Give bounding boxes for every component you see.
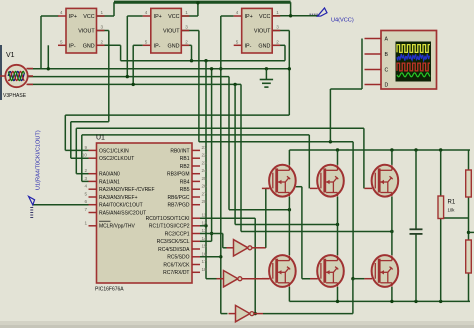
svg-text:VIOUT: VIOUT xyxy=(163,29,180,35)
svg-text:1: 1 xyxy=(84,220,87,225)
svg-text:25: 25 xyxy=(202,176,208,181)
svg-text:IP+: IP+ xyxy=(69,14,77,20)
svg-text:2: 2 xyxy=(101,39,104,44)
svg-text:11: 11 xyxy=(202,213,207,218)
svg-text:OSC1/CLKIN: OSC1/CLKIN xyxy=(99,148,129,154)
svg-text:RB2: RB2 xyxy=(180,164,190,170)
svg-text:U4(VCC): U4(VCC) xyxy=(331,18,354,24)
svg-text:10k: 10k xyxy=(448,208,456,213)
svg-text:RA3/AN3/VREF+: RA3/AN3/VREF+ xyxy=(99,195,138,201)
svg-text:RC5/SDO: RC5/SDO xyxy=(167,255,189,261)
svg-text:4: 4 xyxy=(145,10,148,15)
svg-text:3: 3 xyxy=(185,25,188,30)
svg-text:24: 24 xyxy=(202,168,208,173)
svg-text:1: 1 xyxy=(185,10,188,15)
svg-text:10: 10 xyxy=(82,153,88,158)
svg-text:RC6/TX/CK: RC6/TX/CK xyxy=(163,262,190,268)
svg-text:RA4/T0CKI/C1OUT: RA4/T0CKI/C1OUT xyxy=(99,203,143,209)
svg-text:5: 5 xyxy=(236,39,239,44)
svg-text:IP+: IP+ xyxy=(245,14,253,20)
svg-text:13: 13 xyxy=(202,228,208,233)
svg-text:14: 14 xyxy=(202,236,208,241)
svg-text:RC7/RX/DT: RC7/RX/DT xyxy=(163,270,189,276)
svg-text:VCC: VCC xyxy=(259,14,270,20)
svg-text:RB6/PGC: RB6/PGC xyxy=(168,195,190,201)
svg-text:R1: R1 xyxy=(448,200,456,206)
svg-text:RC3/SCK/SCL: RC3/SCK/SCL xyxy=(157,239,190,245)
svg-text:9: 9 xyxy=(84,145,87,150)
svg-text:3: 3 xyxy=(101,25,104,30)
svg-text:U1(RA4/T0CKI/C1OUT): U1(RA4/T0CKI/C1OUT) xyxy=(36,130,42,190)
svg-text:RB3/PGM: RB3/PGM xyxy=(167,172,190,178)
svg-text:VCC: VCC xyxy=(168,14,179,20)
svg-text:5: 5 xyxy=(145,39,148,44)
svg-text:RA1/AN1: RA1/AN1 xyxy=(99,179,120,185)
svg-text:22: 22 xyxy=(202,153,208,158)
svg-text:V1: V1 xyxy=(6,52,15,59)
svg-text:RA2/AN2/VREF-/CVREF: RA2/AN2/VREF-/CVREF xyxy=(99,187,155,193)
svg-text:3: 3 xyxy=(84,176,87,181)
svg-text:26: 26 xyxy=(202,184,208,189)
svg-text:VIOUT: VIOUT xyxy=(254,29,271,35)
svg-text:D: D xyxy=(385,83,389,89)
svg-text:IP-: IP- xyxy=(154,44,161,50)
svg-text:IP-: IP- xyxy=(69,44,76,50)
svg-text:RC1/T1OSI/CCP2: RC1/T1OSI/CCP2 xyxy=(149,224,190,230)
svg-text:23: 23 xyxy=(202,161,208,166)
svg-text:4: 4 xyxy=(236,10,239,15)
svg-text:RC2/CCP1: RC2/CCP1 xyxy=(165,231,190,237)
svg-text:MCLR/Vpp/THV: MCLR/Vpp/THV xyxy=(99,224,136,230)
svg-text:VCC: VCC xyxy=(83,14,94,20)
svg-text:RB0/INT: RB0/INT xyxy=(170,148,189,154)
svg-text:U1: U1 xyxy=(96,135,105,142)
svg-text:PIC16F676A: PIC16F676A xyxy=(95,287,124,293)
svg-text:GND: GND xyxy=(83,44,95,50)
svg-text:1: 1 xyxy=(101,10,104,15)
svg-text:7: 7 xyxy=(84,207,87,212)
svg-text:RB5: RB5 xyxy=(180,187,190,193)
svg-text:21: 21 xyxy=(202,145,208,150)
svg-text:V3PHASE: V3PHASE xyxy=(3,93,27,99)
svg-text:2: 2 xyxy=(185,39,188,44)
svg-text:RC0/T1OSO/T1CKI: RC0/T1OSO/T1CKI xyxy=(146,216,190,222)
svg-text:18: 18 xyxy=(202,267,208,272)
svg-text:12: 12 xyxy=(202,220,208,225)
svg-text:4: 4 xyxy=(60,10,63,15)
svg-text:1: 1 xyxy=(276,10,279,15)
svg-text:VIOUT: VIOUT xyxy=(78,29,95,35)
svg-text:RB7/PGD: RB7/PGD xyxy=(168,203,190,209)
svg-text:15: 15 xyxy=(202,244,208,249)
svg-text:A: A xyxy=(385,37,389,43)
svg-text:GND: GND xyxy=(168,44,180,50)
svg-text:4: 4 xyxy=(84,184,87,189)
svg-text:RB1: RB1 xyxy=(180,156,190,162)
svg-text:RA0/AN0: RA0/AN0 xyxy=(99,172,120,178)
svg-text:28: 28 xyxy=(202,199,208,204)
svg-text:GND: GND xyxy=(258,44,270,50)
svg-text:RC4/SDI/SDA: RC4/SDI/SDA xyxy=(158,247,190,253)
svg-text:2: 2 xyxy=(84,168,87,173)
svg-text:16: 16 xyxy=(202,251,208,256)
svg-text:C: C xyxy=(385,68,389,74)
svg-text:5: 5 xyxy=(84,192,87,197)
svg-text:OSC2/CLKOUT: OSC2/CLKOUT xyxy=(99,156,134,162)
svg-text:RB4: RB4 xyxy=(180,179,190,185)
svg-text:27: 27 xyxy=(202,192,208,197)
svg-text:6: 6 xyxy=(84,199,87,204)
svg-text:IP-: IP- xyxy=(245,44,252,50)
svg-text:17: 17 xyxy=(202,259,208,264)
svg-text:3: 3 xyxy=(276,25,279,30)
svg-text:IP+: IP+ xyxy=(154,14,162,20)
svg-text:RA5/AN4/SS/C2OUT: RA5/AN4/SS/C2OUT xyxy=(99,210,146,216)
svg-text:2: 2 xyxy=(276,39,279,44)
svg-text:5: 5 xyxy=(60,39,63,44)
svg-text:B: B xyxy=(385,52,389,58)
